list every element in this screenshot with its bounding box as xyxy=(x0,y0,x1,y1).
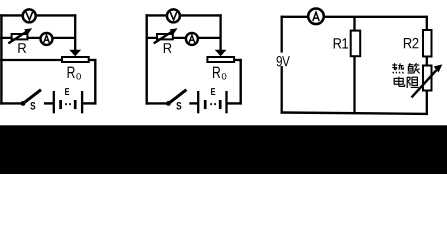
battery plate long 1 (circuit 1) xyxy=(53,91,55,113)
wire: left vertical (circuit 1) xyxy=(0,14,2,104)
label E (circuit 1) xyxy=(65,88,69,95)
ammeter A (circuit 1) xyxy=(41,33,53,45)
black banner at bottom xyxy=(0,125,447,174)
voltmeter V (circuit 1) xyxy=(23,9,36,22)
label R1 (circuit 3) xyxy=(334,38,348,48)
switch lever (circuit 2) xyxy=(169,90,187,104)
wire: second row wire through R and ammeter (circuit 1) xyxy=(0,37,75,39)
wire: R0 right terminal (circuit 1) xyxy=(89,59,97,61)
battery dashes (circuit 1) xyxy=(65,103,67,105)
wire: bottom left segment to switch (circuit 1) xyxy=(0,102,21,104)
wire: right branch vertical (circuit 3) xyxy=(426,16,428,115)
label 9V (circuit 3) xyxy=(275,53,292,66)
wiper arrow onto R0 (circuit 1) xyxy=(69,50,81,57)
wire: wiper drop from top wire (circuit 1) xyxy=(74,14,76,50)
wire: bottom left segment (circuit 2) xyxy=(146,102,167,104)
battery plate long 1 (circuit 2) xyxy=(197,91,199,113)
resistor R1 (circuit 3) xyxy=(351,31,361,57)
wire: R0 right terminal (circuit 2) xyxy=(234,59,242,61)
thermistor body (circuit 3) xyxy=(423,66,432,91)
resistor R2 (circuit 3) xyxy=(423,30,432,57)
battery plate long 2 (circuit 2) xyxy=(225,91,227,113)
battery plate short 2 (circuit 1) xyxy=(74,100,77,109)
rheostat R (circuit 1) xyxy=(12,34,28,39)
label S (circuit 2) xyxy=(175,101,184,111)
battery dashes (circuit 2) xyxy=(210,103,212,105)
rheostat R (circuit 2) xyxy=(157,34,173,39)
battery plate short 1 (circuit 2) xyxy=(204,100,207,109)
wire: R0 left terminal to left rail (circuit 1) xyxy=(0,59,62,61)
ammeter A (circuit 2) xyxy=(186,33,198,45)
ammeter A (circuit 3) xyxy=(308,8,324,24)
switch pivot dot (circuit 2) xyxy=(166,101,171,106)
potentiometer R0 (circuit 1) xyxy=(62,57,89,62)
wire: bottom segment battery to right vertical (circuit 1) xyxy=(83,102,97,104)
rheostat R arrow (circuit 1) xyxy=(8,31,27,43)
label R2 (circuit 3) xyxy=(404,38,419,48)
switch pivot dot (circuit 1) xyxy=(21,101,26,106)
battery plate short 1 (circuit 1) xyxy=(59,100,62,109)
wire: bottom middle segment (circuit 2) xyxy=(189,102,198,104)
wire: left vertical (circuit 3) xyxy=(281,16,283,114)
label E (circuit 2) xyxy=(211,88,215,95)
wire: top wire (circuit 2) xyxy=(146,14,222,16)
wire: right vertical (circuit 2) xyxy=(239,59,241,105)
label thermistor 电 (hand-drawn) xyxy=(394,77,404,87)
rheostat R arrow (circuit 2) xyxy=(154,31,173,43)
wire: second row wire (circuit 2) xyxy=(146,37,221,39)
switch lever (circuit 1) xyxy=(24,90,42,104)
label R (circuit 1) xyxy=(18,43,26,53)
label thermistor 热 (hand-drawn) xyxy=(392,63,404,73)
voltmeter V (circuit 2) xyxy=(167,9,180,22)
battery plate long 2 (circuit 1) xyxy=(81,91,83,113)
wire: top wire (circuit 3) xyxy=(281,16,428,18)
wire: top wire (circuit 1) xyxy=(0,14,76,16)
thermistor arrow (circuit 3) xyxy=(412,70,437,97)
wire: bottom segment switch to battery (circuit 1) xyxy=(44,102,53,104)
battery plate short 2 (circuit 2) xyxy=(219,100,222,109)
wiper arrow onto R0 (circuit 2) xyxy=(215,50,227,57)
wire: left vertical (circuit 2) xyxy=(145,14,147,104)
wire: right vertical (circuit 1) xyxy=(94,59,96,105)
label S (circuit 1) xyxy=(29,101,38,111)
label thermistor 阻 (hand-drawn) xyxy=(407,77,418,88)
wire: wiper drop from top wire (circuit 2) xyxy=(219,14,221,50)
wire: bottom right segment (circuit 2) xyxy=(227,102,242,104)
wire: bottom wire (circuit 3) xyxy=(281,113,428,114)
label thermistor 敏 (hand-drawn) xyxy=(408,63,420,73)
label R0 (circuit 1) xyxy=(68,67,75,78)
label R0 (circuit 2) xyxy=(213,67,220,78)
potentiometer R0 (circuit 2) xyxy=(207,57,234,62)
label R (circuit 2) xyxy=(164,43,172,53)
wire: R1 branch vertical (circuit 3) xyxy=(353,17,355,114)
